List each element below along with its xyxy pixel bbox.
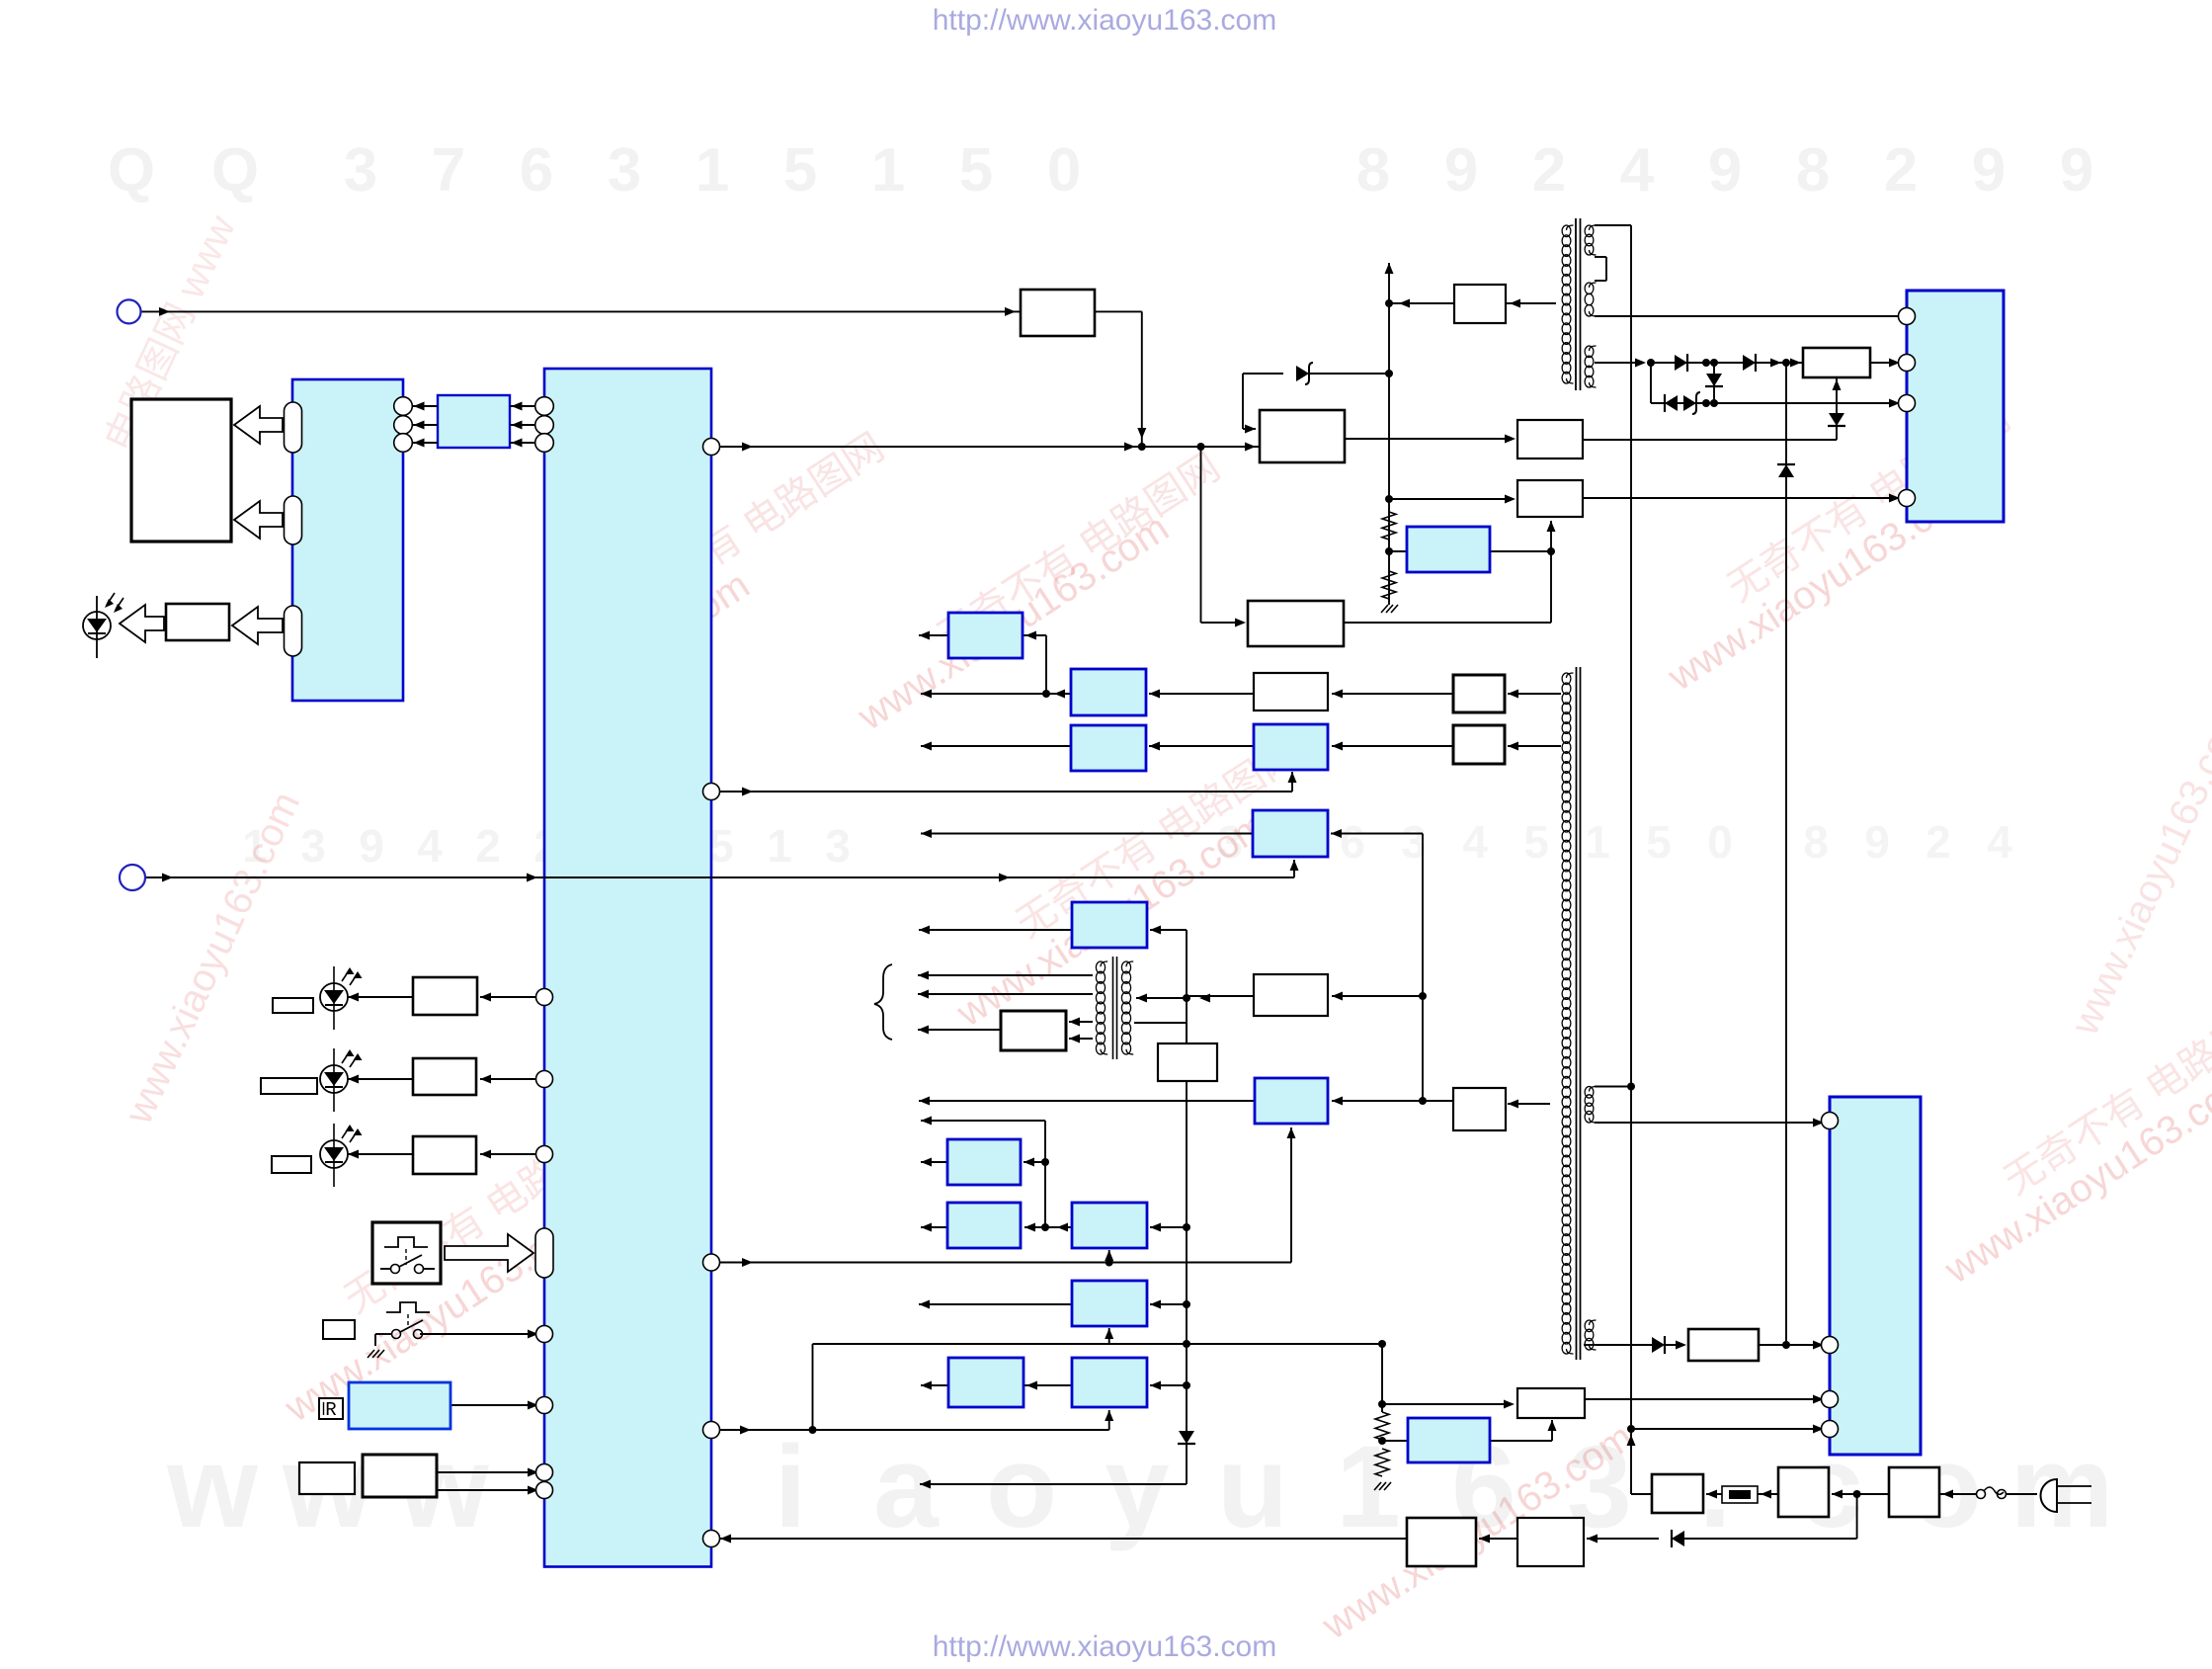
svg-text:Q: Q — [108, 136, 155, 205]
svg-text:4: 4 — [1987, 816, 2012, 868]
svg-text:9: 9 — [359, 820, 384, 872]
svg-text:w: w — [166, 1422, 259, 1552]
svg-text:Q: Q — [211, 136, 259, 205]
svg-text:4: 4 — [417, 820, 443, 872]
svg-text:9: 9 — [1972, 136, 2006, 205]
svg-text:2: 2 — [475, 820, 501, 872]
svg-text:4: 4 — [1620, 136, 1655, 205]
svg-text:3: 3 — [825, 820, 851, 872]
svg-text:8: 8 — [1796, 136, 1830, 205]
svg-text:3: 3 — [344, 136, 377, 205]
svg-text:0: 0 — [1707, 816, 1733, 868]
svg-text:9: 9 — [1708, 136, 1742, 205]
svg-text:7: 7 — [432, 136, 465, 205]
svg-text:8: 8 — [1356, 136, 1390, 205]
svg-text:R: R — [325, 1399, 336, 1421]
svg-text:2: 2 — [1532, 136, 1566, 205]
svg-text:1: 1 — [767, 820, 792, 872]
svg-text:5: 5 — [1523, 816, 1549, 868]
svg-text:0: 0 — [1047, 136, 1081, 205]
svg-text:1: 1 — [696, 136, 729, 205]
svg-text:1: 1 — [871, 136, 905, 205]
svg-text:9: 9 — [1864, 816, 1890, 868]
svg-text:http://www.xiaoyu163.com: http://www.xiaoyu163.com — [933, 1630, 1277, 1663]
svg-text:6: 6 — [520, 136, 553, 205]
svg-text:o: o — [986, 1422, 1057, 1552]
svg-text:http://www.xiaoyu163.com: http://www.xiaoyu163.com — [933, 4, 1277, 37]
svg-text:3: 3 — [608, 136, 641, 205]
svg-text:9: 9 — [1444, 136, 1478, 205]
svg-text:u: u — [1217, 1422, 1288, 1552]
svg-text:1: 1 — [1585, 816, 1610, 868]
svg-text:2: 2 — [1884, 136, 1918, 205]
svg-text:8: 8 — [1803, 816, 1829, 868]
svg-text:2: 2 — [1925, 816, 1951, 868]
svg-text:5: 5 — [1646, 816, 1672, 868]
svg-text:6: 6 — [1340, 816, 1365, 868]
svg-text:i: i — [775, 1422, 807, 1552]
svg-text:m: m — [2010, 1422, 2114, 1552]
svg-text:5: 5 — [783, 136, 817, 205]
svg-text:5: 5 — [959, 136, 993, 205]
svg-text:9: 9 — [2060, 136, 2093, 205]
svg-text:y: y — [1105, 1422, 1170, 1552]
svg-text:4: 4 — [1462, 816, 1488, 868]
svg-text:3: 3 — [300, 820, 326, 872]
